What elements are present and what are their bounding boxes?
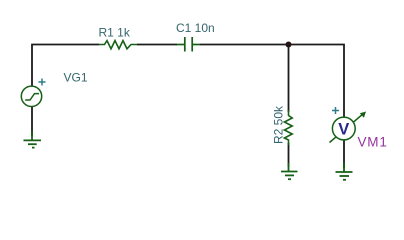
wire VG1 bottom to ground	[31, 106, 33, 136]
svg-text:C1 10n: C1 10n	[176, 21, 215, 35]
VG1 plus sign	[39, 79, 46, 86]
resistor R2	[284, 110, 292, 145]
node A junction dot	[286, 42, 292, 48]
wire R1 to C1	[137, 44, 177, 46]
ground under VG1	[24, 131, 42, 148]
wire C1 to node A and down to VM1	[200, 45, 344, 118]
wire node A down to R2	[288, 45, 290, 113]
svg-text:V: V	[338, 120, 349, 138]
wire R2 bottom to ground	[288, 143, 290, 167]
wire VG1 top to R1	[32, 45, 99, 87]
svg-text:VM1: VM1	[358, 134, 388, 149]
ground under VM1	[336, 163, 353, 180]
svg-text:R1 1k: R1 1k	[99, 25, 131, 39]
svg-text:VG1: VG1	[64, 71, 88, 85]
resistor R1	[99, 41, 137, 49]
ground under R2	[281, 163, 298, 179]
VM1 plus sign	[332, 107, 339, 114]
capacitor C1	[177, 37, 200, 52]
voltmeter VM1	[330, 112, 367, 143]
voltage generator VG1	[21, 86, 41, 106]
wire VM1 bottom to ground	[343, 141, 345, 169]
svg-text:R2 50k: R2 50k	[272, 105, 286, 144]
